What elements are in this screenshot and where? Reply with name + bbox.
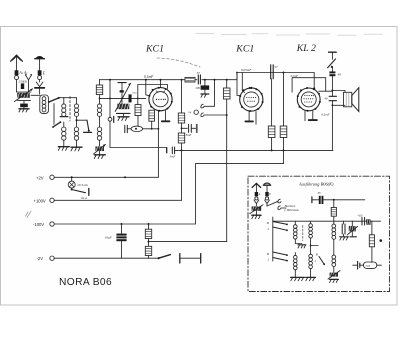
svg-text:5mF: 5mF <box>170 154 176 158</box>
svg-text:+10: +10 <box>365 264 371 268</box>
box jack V pair <box>254 200 269 206</box>
box trimmer w ground under column C <box>328 271 340 283</box>
grid feed wire tube U1 <box>146 80 149 96</box>
tube U3 KL2 <box>297 87 321 112</box>
ground column2 <box>71 147 82 151</box>
svg-text:*4: *4 <box>188 111 192 115</box>
jack circle near tube1 <box>108 117 112 121</box>
grid pin dot tube U3 <box>313 87 315 89</box>
grid tank wire <box>99 92 146 103</box>
capacitor 40 block <box>329 71 335 90</box>
box padder capacitors <box>340 221 358 240</box>
dashed enclosure box <box>248 176 390 291</box>
dashed coupling line <box>69 97 71 122</box>
bias resistor chain R9 R10 <box>145 224 151 258</box>
coil L3b column2 <box>74 127 78 147</box>
svg-text:f. Behrstab: f. Behrstab <box>285 208 299 212</box>
mains switch S4 <box>328 52 337 71</box>
tube U1 KC1 <box>148 80 172 112</box>
series resistor in antenna lead <box>21 83 24 89</box>
screen loop wire tube U1 <box>138 85 168 105</box>
HF choke with series capacitor <box>125 125 160 132</box>
ground under antenna trimmer <box>19 109 29 112</box>
tube U2 KC1 <box>236 72 264 112</box>
resistor chain R4 R5 on anode feed <box>178 80 184 201</box>
ground under tube U1 <box>162 111 170 122</box>
box resistor on W1 <box>331 200 336 221</box>
tuning gang capacitor C2 <box>115 83 130 117</box>
anode wire tube U3 <box>319 90 333 92</box>
svg-text:100: 100 <box>195 86 200 90</box>
box wire W1 with 3V capacitor <box>312 196 365 204</box>
svg-text:10µF: 10µF <box>105 236 113 240</box>
svg-text:-2V: -2V <box>37 256 44 261</box>
svg-text:40: 40 <box>324 97 328 101</box>
svg-text:57: 57 <box>197 71 201 75</box>
antenna A1 <box>11 55 23 92</box>
box coil column A <box>291 221 306 281</box>
capacitor 100 to ground <box>201 80 210 98</box>
switch on -2V rail <box>158 254 201 263</box>
band switch lever S1 <box>48 97 64 103</box>
coil L2b column1 <box>62 122 66 147</box>
pickup hook contacts and wires <box>201 80 228 117</box>
cathode resistor R2 <box>135 105 141 127</box>
box coil column B <box>306 221 318 281</box>
svg-text:KC1: KC1 <box>235 44 254 55</box>
switch frame wire <box>53 104 55 125</box>
ground under tube U3 <box>305 111 317 121</box>
svg-text:KL 2: KL 2 <box>296 43 316 54</box>
bias feed wire <box>149 241 227 243</box>
faint scan speckles top <box>196 34 382 36</box>
ground under tube U2 <box>245 111 256 124</box>
svg-text:KC1: KC1 <box>145 43 164 54</box>
coupling capacitor 5mF at bus1 start <box>167 147 175 154</box>
svg-text:5mF: 5mF <box>186 133 192 137</box>
box resistor right <box>369 221 374 262</box>
antenna trimmer capacitor <box>15 89 33 109</box>
bypass capacitor 5mF branch <box>182 124 198 133</box>
ground column3 <box>94 155 105 159</box>
dashed AVC arc <box>157 58 200 67</box>
antenna jack V <box>25 74 32 92</box>
bus wire 2 <box>196 150 284 163</box>
svg-text:(W): (W) <box>133 92 137 95</box>
bus wire 1 <box>175 149 333 151</box>
svg-text:A: A <box>258 193 261 196</box>
ground column1 <box>58 147 69 151</box>
coil L4a column3 <box>97 104 101 127</box>
supply terminal -2V <box>50 256 159 260</box>
svg-text:-100V: -100V <box>33 222 44 227</box>
capacitor 57 series <box>198 75 200 84</box>
supply terminal -100V <box>50 222 195 226</box>
pilot lamp <box>68 176 89 195</box>
supply terminal +2V <box>50 175 159 179</box>
antenna coil can L1 <box>40 95 49 113</box>
node dots bus <box>271 149 273 151</box>
box speck <box>380 239 383 242</box>
resistor R1 <box>96 80 102 104</box>
top bus wire <box>100 73 315 89</box>
box lever M2 <box>314 253 326 265</box>
box wire W2 <box>273 220 381 222</box>
box hook contacts <box>267 199 286 209</box>
svg-text:57: 57 <box>274 65 278 69</box>
coil L2a column1 <box>60 98 68 117</box>
pickup jack circle <box>194 110 198 114</box>
earth terminal E <box>35 56 45 94</box>
screen wire tube U3 <box>292 78 326 93</box>
electrolytic capacitor 10uF <box>116 224 126 258</box>
box antenna symbol <box>252 183 260 200</box>
grid leak resistor R8 <box>280 72 287 151</box>
wire V4 <box>195 164 197 224</box>
wire bus to V9 <box>109 80 111 118</box>
node to speaker <box>331 90 333 92</box>
box coupling dashed line <box>302 226 304 241</box>
box switch bank <box>266 217 288 262</box>
svg-text:0,1mF: 0,1mF <box>291 74 299 78</box>
supply terminal +100V <box>50 198 182 202</box>
series capacitor in output line <box>329 91 336 151</box>
trimmer capacitor column3 <box>94 144 106 154</box>
screen resistor box on top bus <box>185 77 195 82</box>
capacitor 57 second <box>271 65 274 79</box>
box trimmer capacitor <box>250 205 263 219</box>
wire trimmer to coil can <box>31 94 40 96</box>
svg-text:A1 A2: A1 A2 <box>19 71 29 75</box>
ground under tuning gang <box>118 117 129 121</box>
wire to column 2 top <box>64 97 77 99</box>
svg-text:ßn A: ßn A <box>80 196 87 200</box>
wire V1 heater down <box>157 118 159 177</box>
switch lever S2 <box>52 121 61 128</box>
svg-text:Ausführung B06(K): Ausführung B06(K) <box>298 181 334 186</box>
svg-text:40: 40 <box>338 73 342 77</box>
node dots on top bus <box>109 79 111 81</box>
resistor R3 <box>149 110 155 129</box>
box coil column C <box>332 221 336 272</box>
svg-text:+2V: +2V <box>36 175 44 180</box>
tap wire and lever S3 <box>77 120 92 132</box>
coil L4b column3 <box>97 127 101 146</box>
svg-text:E: E <box>268 193 271 196</box>
heater pin wire tube U1 <box>157 111 159 118</box>
svg-text:NORA B06: NORA B06 <box>59 277 112 288</box>
svg-text:+(3): +(3) <box>357 214 362 217</box>
coil L3a column2 <box>74 98 78 127</box>
svg-text:+100V: +100V <box>34 198 46 203</box>
box capacitor on W2 right <box>357 214 370 225</box>
box earth symbol <box>263 183 271 200</box>
detector load resistor R6 on V5 <box>223 80 230 242</box>
box oval battery element <box>353 261 382 269</box>
screen resistor R7 <box>268 79 275 151</box>
loudspeaker LS <box>332 88 359 112</box>
pencil mark <box>25 211 31 217</box>
svg-text:250(A): 250(A) <box>19 80 28 84</box>
